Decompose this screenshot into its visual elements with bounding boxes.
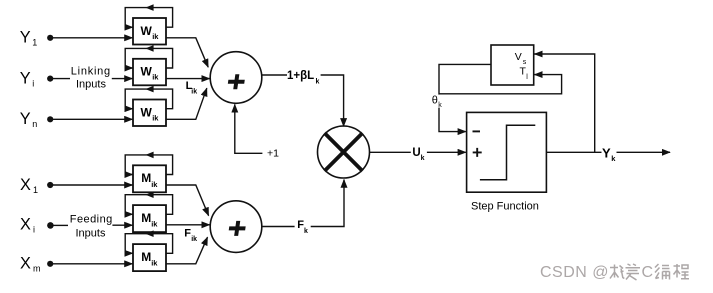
svg-text:W: W <box>141 105 153 119</box>
label Feeding Inputs <box>70 213 113 239</box>
svg-text:ik: ik <box>151 220 158 229</box>
svg-text:X: X <box>20 216 31 234</box>
svg-text:+1: +1 <box>267 147 279 159</box>
label W1 Wik <box>141 24 160 41</box>
svg-text:ik: ik <box>152 113 159 122</box>
svg-text:U: U <box>412 147 420 159</box>
label Xm <box>20 255 41 274</box>
label Linking Inputs <box>71 66 111 91</box>
svg-text:Y: Y <box>20 110 31 128</box>
svg-text:i: i <box>32 78 34 88</box>
svg-text:i: i <box>33 225 35 235</box>
svg-text:k: k <box>316 79 320 86</box>
label M3 Mik <box>141 250 158 268</box>
svg-text:n: n <box>32 119 37 129</box>
wire theta output to step box minus input <box>439 64 491 131</box>
svg-text:Y: Y <box>20 69 31 87</box>
node X1 <box>47 182 53 188</box>
svg-text:k: k <box>421 155 425 162</box>
svg-text:M: M <box>141 211 151 225</box>
svg-text:m: m <box>33 264 41 274</box>
wire Y1 input <box>53 37 132 39</box>
wire Yi input <box>53 78 133 80</box>
wire Yk feedback to threshold box <box>535 54 595 152</box>
label X1 <box>20 176 38 195</box>
wire summer output 1+bL <box>262 74 287 76</box>
svg-text:ik: ik <box>191 236 197 243</box>
label Tl <box>520 66 529 81</box>
svg-text:M: M <box>141 250 151 264</box>
watermark CSDN <box>540 264 653 281</box>
svg-text:Inputs: Inputs <box>76 228 106 240</box>
svg-text:ik: ik <box>152 73 159 82</box>
wire M2 output to summer <box>166 224 210 226</box>
node Xm <box>47 261 53 267</box>
svg-text:V: V <box>515 51 522 63</box>
svg-text:Y: Y <box>20 29 31 47</box>
svg-text:Inputs: Inputs <box>76 79 106 91</box>
wire W2 output to summer <box>166 78 210 80</box>
svg-text:W: W <box>141 65 153 79</box>
label Xi <box>20 216 35 235</box>
label Lik <box>186 80 198 95</box>
wire M1 output to summer <box>166 185 209 216</box>
label Yn <box>20 110 38 129</box>
svg-text:Y: Y <box>602 145 611 160</box>
wire step box output Yk <box>546 151 601 153</box>
label Yk <box>602 145 616 163</box>
label W3 Wik <box>141 105 160 122</box>
wire Fk to multiplier <box>311 180 344 227</box>
svg-text:k: k <box>304 228 308 235</box>
label M2 Mik <box>141 211 158 229</box>
svg-text:Step Function: Step Function <box>471 201 539 213</box>
svg-text:F: F <box>184 228 191 240</box>
node Yn <box>47 116 53 122</box>
wire M3 output to summer <box>166 237 208 264</box>
svg-text:Linking: Linking <box>71 66 111 78</box>
wire Yn input <box>53 118 132 120</box>
node Xi <box>47 222 54 229</box>
svg-text:C: C <box>642 264 654 281</box>
svg-text:ik: ik <box>151 259 158 268</box>
svg-text:k: k <box>438 102 442 109</box>
node Y1 <box>47 35 53 41</box>
weight box W3 with feedback loop <box>125 86 172 126</box>
svg-text:1: 1 <box>33 185 38 195</box>
summer circle feeding <box>210 201 262 253</box>
label Vs <box>515 51 527 66</box>
label W2 Wik <box>141 65 160 82</box>
svg-text:CSDN @: CSDN @ <box>540 264 609 281</box>
label theta k <box>431 94 445 109</box>
wire Uk to step box <box>427 151 466 153</box>
wire Yk output arrow <box>617 151 671 153</box>
weight box M2 with feedback loop <box>125 191 172 232</box>
wire W1 output to summer <box>166 38 208 67</box>
svg-text:1+βL: 1+βL <box>287 70 314 82</box>
svg-text:Feeding: Feeding <box>70 213 113 225</box>
wire summer feeding output Fk <box>262 226 295 228</box>
wire X1 input <box>53 184 132 186</box>
label +1 <box>267 147 279 159</box>
weight box W1 with feedback loop <box>125 4 172 44</box>
threshold box Vs Tl <box>491 45 534 85</box>
weight box M1 with feedback loop <box>125 152 172 193</box>
weight box W2 with feedback loop <box>125 45 172 85</box>
svg-text:l: l <box>526 74 528 81</box>
wire W3 output to summer <box>166 88 207 119</box>
wire Xi input <box>53 224 133 226</box>
label Fk <box>297 219 308 235</box>
svg-text:ik: ik <box>152 32 159 41</box>
watermark hanzi approximations <box>610 264 689 280</box>
weight box M3 with feedback loop <box>125 230 172 271</box>
node Yi <box>47 76 53 82</box>
svg-text:X: X <box>20 255 31 273</box>
label 1+bLk <box>287 70 320 86</box>
step function box <box>467 112 547 192</box>
svg-text:X: X <box>20 176 31 194</box>
label Step Function <box>471 201 539 213</box>
svg-text:ik: ik <box>191 88 197 95</box>
svg-text:k: k <box>611 154 616 163</box>
wire +1 input <box>235 104 263 153</box>
svg-text:W: W <box>141 24 153 38</box>
wire multiplier output Uk <box>369 151 410 153</box>
svg-text:1: 1 <box>32 38 37 48</box>
wire Xm input <box>53 263 132 265</box>
summer circle linking <box>210 52 262 104</box>
multiplier circle <box>318 126 370 178</box>
label Uk <box>412 147 424 162</box>
label Y1 <box>20 29 38 48</box>
svg-text:ik: ik <box>151 180 158 189</box>
svg-text:θ: θ <box>432 94 438 106</box>
svg-text:M: M <box>141 171 151 185</box>
label Fik <box>184 228 197 243</box>
label M1 Mik <box>141 171 158 189</box>
wire 1+bL to multiplier <box>321 75 344 126</box>
label Yi <box>20 69 35 88</box>
wire theta recursion to threshold box <box>439 75 562 94</box>
